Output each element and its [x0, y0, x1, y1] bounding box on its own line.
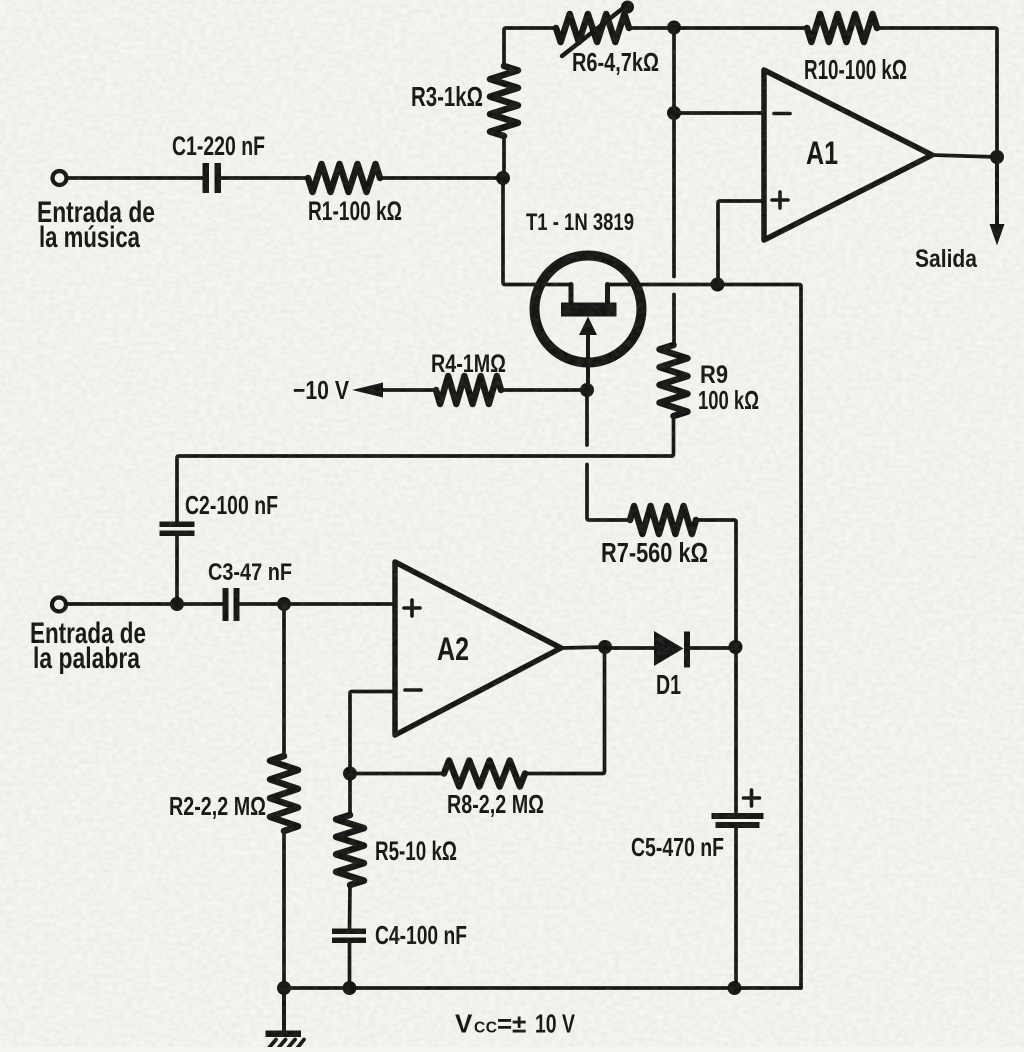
wire T1 source to A1 plus node	[608, 283, 718, 287]
node C2 junction	[170, 597, 184, 611]
node source/A1 plus junction	[711, 278, 725, 292]
node A2 minus/R5/R8 junction	[343, 767, 357, 781]
A2 plus sign	[404, 600, 420, 616]
wire node down to C5	[734, 647, 738, 813]
wire ground rail	[284, 986, 801, 990]
wire C2 bottom lead	[175, 536, 179, 604]
paper grain overlay	[0, 0, 1, 1]
wire R9 to C2	[177, 456, 672, 521]
input terminal (Entrada de la palabra)	[52, 598, 66, 612]
-10V arrow	[352, 383, 383, 398]
node R1/R3 junction	[496, 171, 510, 185]
wire R4 to gate node	[501, 388, 587, 392]
wire to D1	[605, 646, 654, 650]
wire A2 output down to R8	[525, 647, 605, 774]
node ground/R2	[277, 981, 291, 995]
wire C3 to A2 plus input	[240, 602, 396, 606]
diode D1	[654, 631, 684, 666]
wire R2 top lead	[282, 604, 286, 756]
R6 wiper arrow	[562, 9, 622, 56]
wire R7 to D1 node	[696, 520, 736, 647]
wire A1 plus input down	[718, 201, 762, 285]
wire C1 to R1	[221, 176, 308, 180]
A1 minus sign	[774, 112, 790, 116]
wire R8 to R5 node	[350, 772, 444, 776]
wire R9 bottom lead	[672, 416, 674, 456]
resistor R2	[270, 756, 298, 831]
A2 minus sign	[405, 688, 421, 692]
C5 plus sign	[744, 790, 760, 806]
T1 source lead	[605, 285, 610, 306]
resistor R10	[807, 14, 877, 42]
transistor T1 drain lead	[569, 285, 574, 306]
capacitor C1	[203, 163, 222, 193]
ground symbol	[282, 988, 286, 1031]
transistor T1 1N3819 body	[535, 256, 642, 363]
wire gate down (break at crossing)	[585, 390, 589, 445]
wire C4 bottom lead	[348, 943, 352, 988]
capacitor C5 (electrolytic)	[712, 813, 764, 828]
node D1/R7/C5 junction	[729, 640, 743, 654]
node A1 inverting junction	[667, 106, 681, 120]
resistor R9	[660, 345, 688, 416]
node R2 junction	[277, 597, 291, 611]
wire A2 minus input down	[350, 692, 395, 774]
node ground/C4	[343, 981, 357, 995]
wire to R7	[587, 465, 630, 521]
node output junction	[990, 150, 1004, 164]
resistor R3	[490, 66, 518, 136]
resistor R5	[336, 815, 364, 885]
T1 gate arrow	[579, 317, 597, 336]
wire node to R10	[674, 26, 807, 30]
node ground/C5	[728, 981, 742, 995]
wire vertical to A1 inverting input	[672, 28, 676, 277]
wire A1 output	[932, 155, 997, 157]
op-amp A2	[395, 562, 561, 735]
capacitor C3	[223, 588, 240, 621]
wire R10 to output node	[877, 28, 997, 157]
wire R5 to C4	[348, 885, 352, 929]
input terminal (Entrada de la musica)	[53, 171, 67, 185]
wire input to C1	[67, 176, 202, 180]
T1 gate lead	[586, 330, 590, 390]
T1 channel bar	[561, 303, 617, 317]
wire right rail down	[718, 285, 802, 989]
wire C5 bottom lead	[734, 828, 738, 988]
wire A2 output	[561, 647, 605, 648]
wire node down to T1 drain	[503, 178, 571, 285]
wire to A1 minus input	[674, 111, 762, 115]
wire R3 top to R6	[504, 28, 556, 66]
wire input to C3	[67, 602, 224, 606]
wire R6 to node	[629, 26, 674, 30]
node gate/R4 junction	[580, 383, 594, 397]
op-amp A1	[764, 70, 932, 240]
wire D1 to node	[690, 646, 736, 650]
resistor R7	[630, 506, 696, 534]
output arrow (Salida)	[995, 157, 999, 228]
resistor R6 (variable)	[556, 14, 629, 42]
A1 plus sign	[772, 192, 788, 208]
resistor R1	[308, 164, 380, 192]
resistor R8	[444, 761, 525, 787]
wire R9 top lead	[672, 295, 676, 346]
capacitor C2	[160, 522, 195, 537]
resistor R4	[436, 376, 501, 404]
wire R5 top lead	[348, 774, 352, 816]
wire R2 bottom lead	[282, 831, 286, 988]
capacitor C4	[332, 929, 366, 944]
node A2 output junction	[598, 640, 612, 654]
wire arrow to R4	[383, 388, 436, 392]
wire R1 to node	[380, 176, 503, 180]
wire R3 bottom lead	[502, 136, 506, 178]
node R6/R10 junction	[667, 21, 681, 35]
